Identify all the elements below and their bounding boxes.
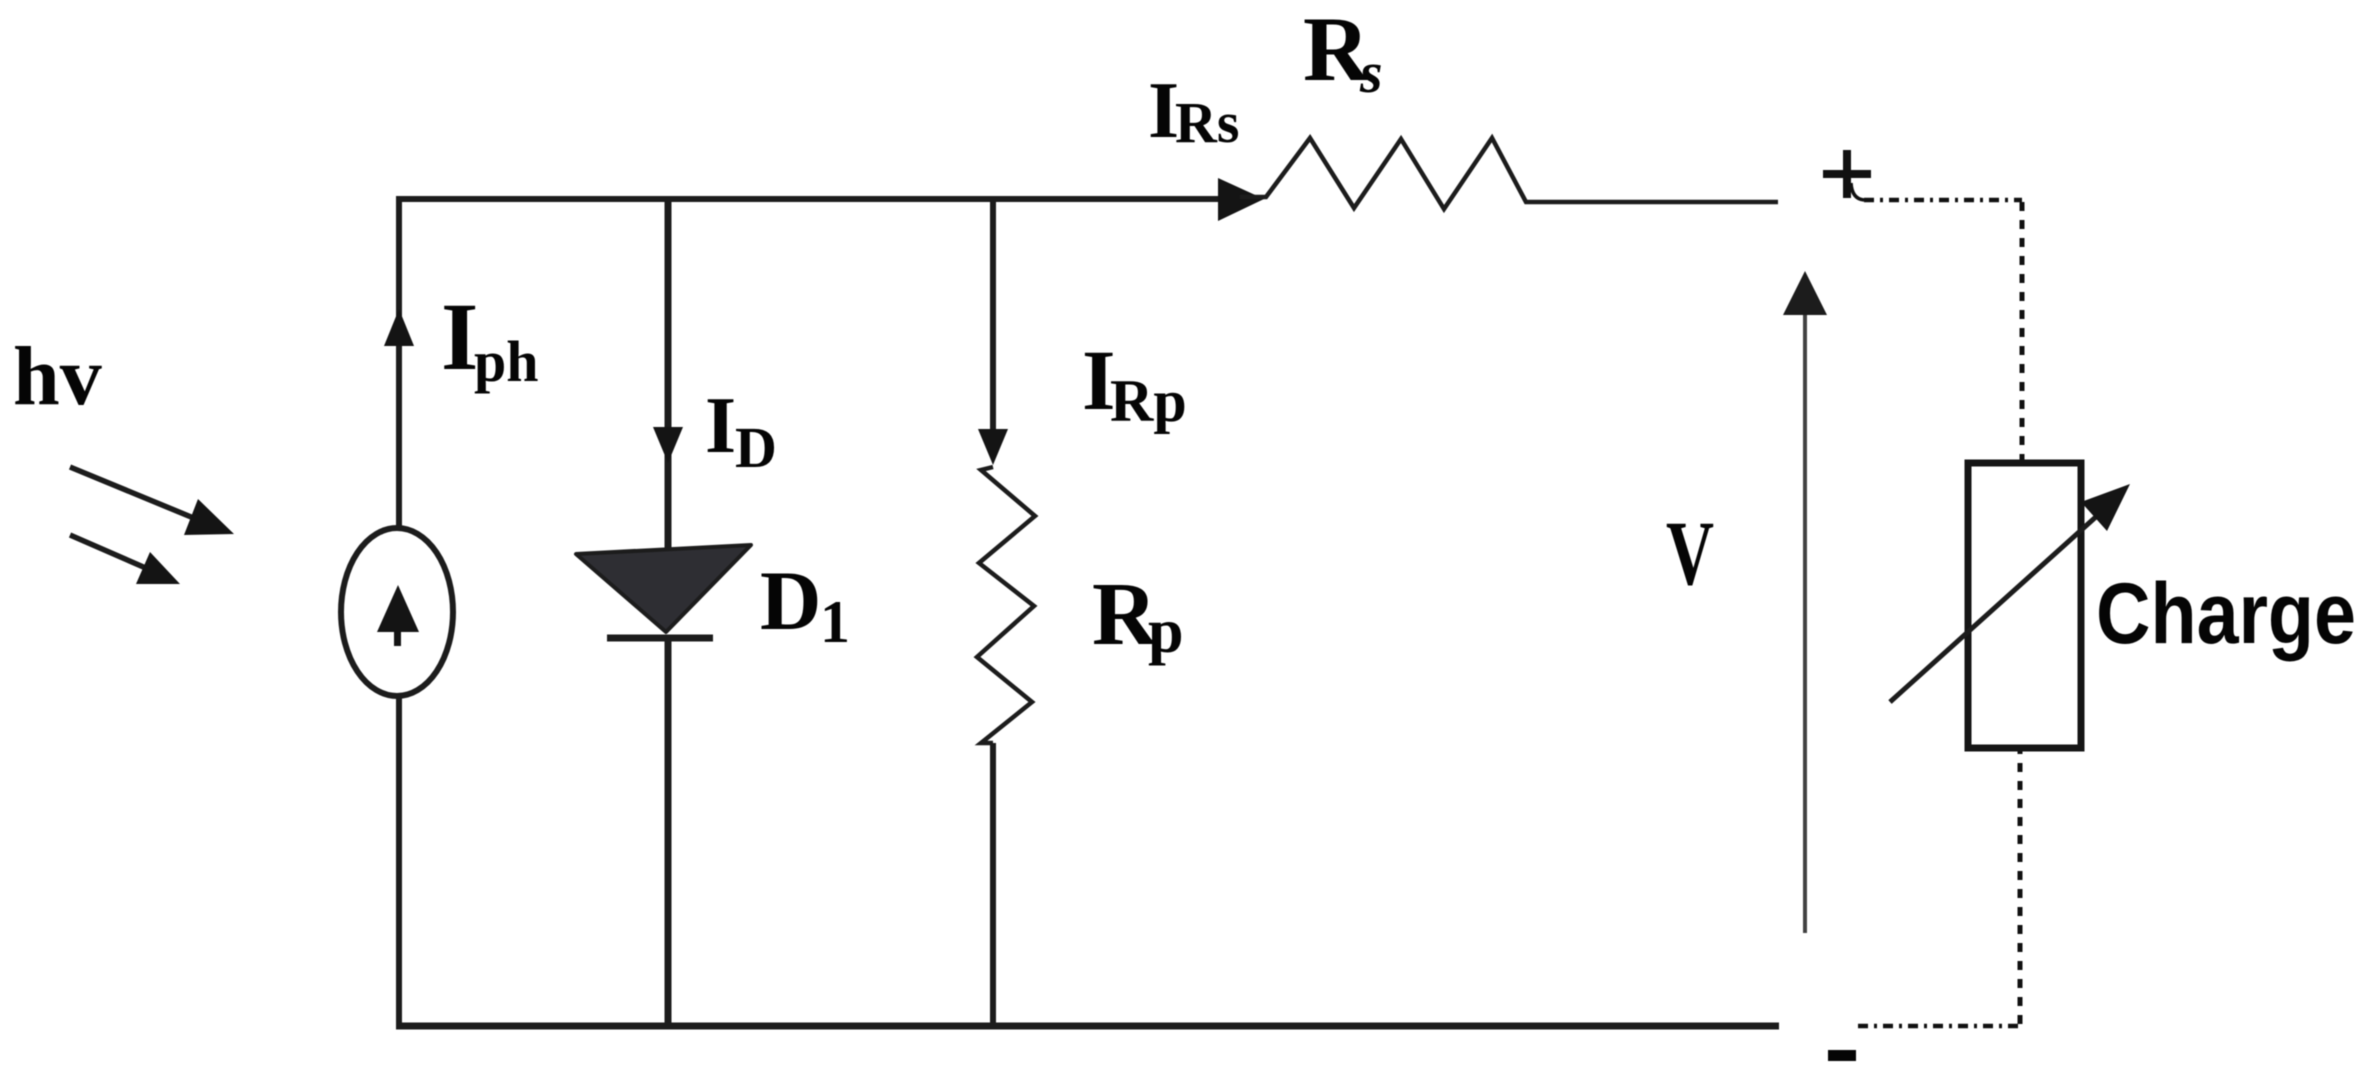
wire bottom horizontal bbox=[396, 1023, 1779, 1030]
arrow Iph current bbox=[384, 309, 414, 346]
current source arrow bbox=[377, 585, 419, 632]
svg-text:s: s bbox=[1359, 40, 1383, 105]
svg-text:ph: ph bbox=[474, 329, 539, 394]
wire dash-dot top to load bbox=[1851, 183, 1864, 200]
wire dash-dot bottom to load bbox=[1858, 1024, 2020, 1029]
svg-text:1: 1 bbox=[820, 589, 850, 655]
wire top horizontal bbox=[396, 196, 1238, 202]
load variable arrow bbox=[1890, 515, 2098, 702]
arrow V voltage bbox=[1803, 310, 1807, 933]
diode D1 bbox=[576, 545, 751, 632]
arrow ID current bbox=[653, 427, 683, 463]
wire Rp branch lower bbox=[990, 743, 996, 1029]
svg-text:I: I bbox=[441, 283, 478, 390]
plus terminal bbox=[1823, 150, 1871, 198]
svg-text:D: D bbox=[735, 415, 777, 480]
wire diode branch upper bbox=[665, 196, 672, 550]
arrow IRp current bbox=[978, 429, 1008, 465]
minus terminal bbox=[1828, 1050, 1856, 1061]
light ray arrow 1 bbox=[70, 467, 196, 519]
arrow IRs current bbox=[1218, 178, 1264, 221]
resistor Rs zigzag bbox=[1240, 138, 1778, 209]
wire left vertical lower bbox=[396, 695, 402, 1029]
svg-text:V: V bbox=[1666, 502, 1714, 604]
svg-text:hv: hv bbox=[13, 330, 102, 423]
svg-text:p: p bbox=[1148, 595, 1184, 666]
wire diode branch lower bbox=[665, 636, 672, 1029]
wire left vertical upper bbox=[396, 196, 402, 530]
svg-text:D: D bbox=[760, 554, 821, 648]
svg-text:Charge: Charge bbox=[2096, 566, 2356, 662]
resistor Rp zigzag bbox=[977, 467, 1035, 743]
svg-text:Rs: Rs bbox=[1175, 90, 1239, 155]
light ray arrow 2 bbox=[70, 535, 148, 569]
svg-text:I: I bbox=[705, 382, 736, 470]
svg-text:Rp: Rp bbox=[1110, 368, 1187, 434]
wire Rp branch upper bbox=[990, 196, 996, 430]
load box (Charge) bbox=[1968, 463, 2081, 748]
current source U1 (photocurrent source) bbox=[341, 528, 453, 696]
